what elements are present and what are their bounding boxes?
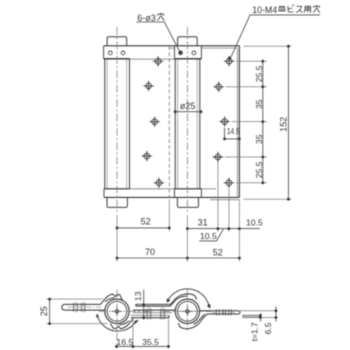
svg-text:35.5: 35.5 [142,337,159,347]
bottom hole column extension lines [117,163,239,262]
BOTTOM VIEW (plan view) [39,289,278,349]
right barrel [175,59,200,189]
hole row extension lines [225,46,292,199]
upper strap (opposite leaf plane) [136,301,174,306]
leadered dimension 10.5 [199,229,223,241]
center plate screw hole ticks [147,309,165,320]
dimension 13 [138,304,147,306]
right leaf screw hole 1 [224,56,234,66]
svg-text:35: 35 [254,99,264,109]
dimension 14.5 [225,128,240,139]
left housing hole circles [108,51,125,55]
svg-text:52: 52 [141,217,151,227]
left knuckle bottom wrap [110,318,133,329]
right leaf screw hole 3 [219,116,229,126]
dimension 6.5 [275,307,277,322]
left barrel foot [107,197,127,207]
right knuckle housing bottom [175,189,202,198]
label 10-M4 leader [230,15,320,60]
right knuckle housing top [175,46,202,59]
left leaf screw hole D [142,151,152,161]
svg-text:ø25: ø25 [180,101,196,111]
center plate hidden edge (dashed) [168,46,170,197]
left leaf screw hole A [153,56,163,66]
kanji yō (use) [304,6,311,12]
right leaf (plan) [200,311,241,314]
dimension ø25 line [175,111,201,113]
center plate (plan) [131,304,176,317]
left knuckle outer circle [105,299,129,323]
rotation arrow right knuckle [168,289,209,307]
svg-text:10.5: 10.5 [246,218,263,228]
right leaf right edge [238,46,240,198]
right knuckle centerlines [162,290,211,334]
katakana su [296,6,303,12]
dimension 31 / 10.5 line [187,228,259,230]
left barrel inner tube lines [107,59,127,189]
right barrel centerline [186,27,188,214]
left barrel centerline [116,27,118,214]
svg-text:6.5: 6.5 [263,322,273,334]
right leaf screw hole 2 [214,82,224,92]
dimension chain 25.5/35/35/25.5 line [262,61,264,183]
bent tab at right leaf end [243,315,260,317]
right knuckle top wrap [173,294,196,302]
katakana bi [288,5,294,12]
right knuckle bottom wrap band [178,314,207,329]
left knuckle housing bottom [103,189,105,198]
svg-text:152: 152 [278,117,288,132]
kanji ana (hole) [157,13,164,21]
right knuckle pin [182,306,192,316]
left knuckle centerlines [99,290,153,349]
plate top second line [130,48,238,59]
left knuckle pin [112,306,122,316]
right leaf screw hole 5 [224,178,234,188]
svg-text:25: 25 [39,306,49,316]
label 6-ø3 holes leader [136,22,180,52]
dimension 25 [46,299,107,324]
svg-text:31: 31 [198,218,208,228]
left knuckle top wrap band [100,294,122,305]
right knuckle inner circle [178,301,198,321]
left leaf screw hole ticks [74,303,86,312]
kanji ana (hole) 2 [313,5,320,13]
svg-text:t=1.7: t=1.7 [249,322,259,341]
right leaf screw hole 4 [213,152,223,162]
left leaf screw hole E [154,178,164,188]
left knuckle inner circle [107,301,127,321]
kanji sara (dish) [278,7,285,11]
left leaf hole centerlines [68,302,102,313]
left leaf (plan) [62,304,105,310]
right leaf hole centerline [212,311,235,313]
svg-text:25.5: 25.5 [254,65,264,82]
right barrel foot [177,197,198,207]
svg-text:25.5: 25.5 [254,161,264,178]
plate bottom edge [104,196,239,198]
right leaf right edge inner line [236,48,238,197]
dimension 70 and 52 right line [117,257,239,259]
bottom housing top line [104,189,239,200]
plate top edge [104,45,240,47]
right housing hole circles [179,51,196,55]
svg-text:13: 13 [133,291,143,301]
right leaf screw hole ticks [216,309,231,315]
svg-text:14.5: 14.5 [227,126,240,136]
dimension 52 left line [117,227,169,229]
right barrel cap [178,37,198,46]
left leaf screw hole C [149,117,159,127]
svg-text:10-M4: 10-M4 [252,5,277,15]
svg-text:16.5: 16.5 [116,337,133,347]
rotation arrow left knuckle [98,317,136,331]
svg-text:35: 35 [254,134,264,144]
left barrel cap [107,37,127,46]
svg-text:6-ø3: 6-ø3 [137,13,156,23]
dimensions 16.5 and 35.5 [133,319,169,349]
dimension 152 line [287,46,289,199]
right knuckle outer circle [175,299,199,323]
left leaf screw hole B [143,81,153,91]
right barrel inner tube lines [178,59,198,189]
svg-text:52: 52 [213,247,223,257]
left barrel [105,59,130,189]
svg-text:10.5: 10.5 [200,231,217,241]
left knuckle housing top [103,46,105,59]
svg-text:70: 70 [145,247,155,257]
dimension t=1.7 [238,311,277,318]
